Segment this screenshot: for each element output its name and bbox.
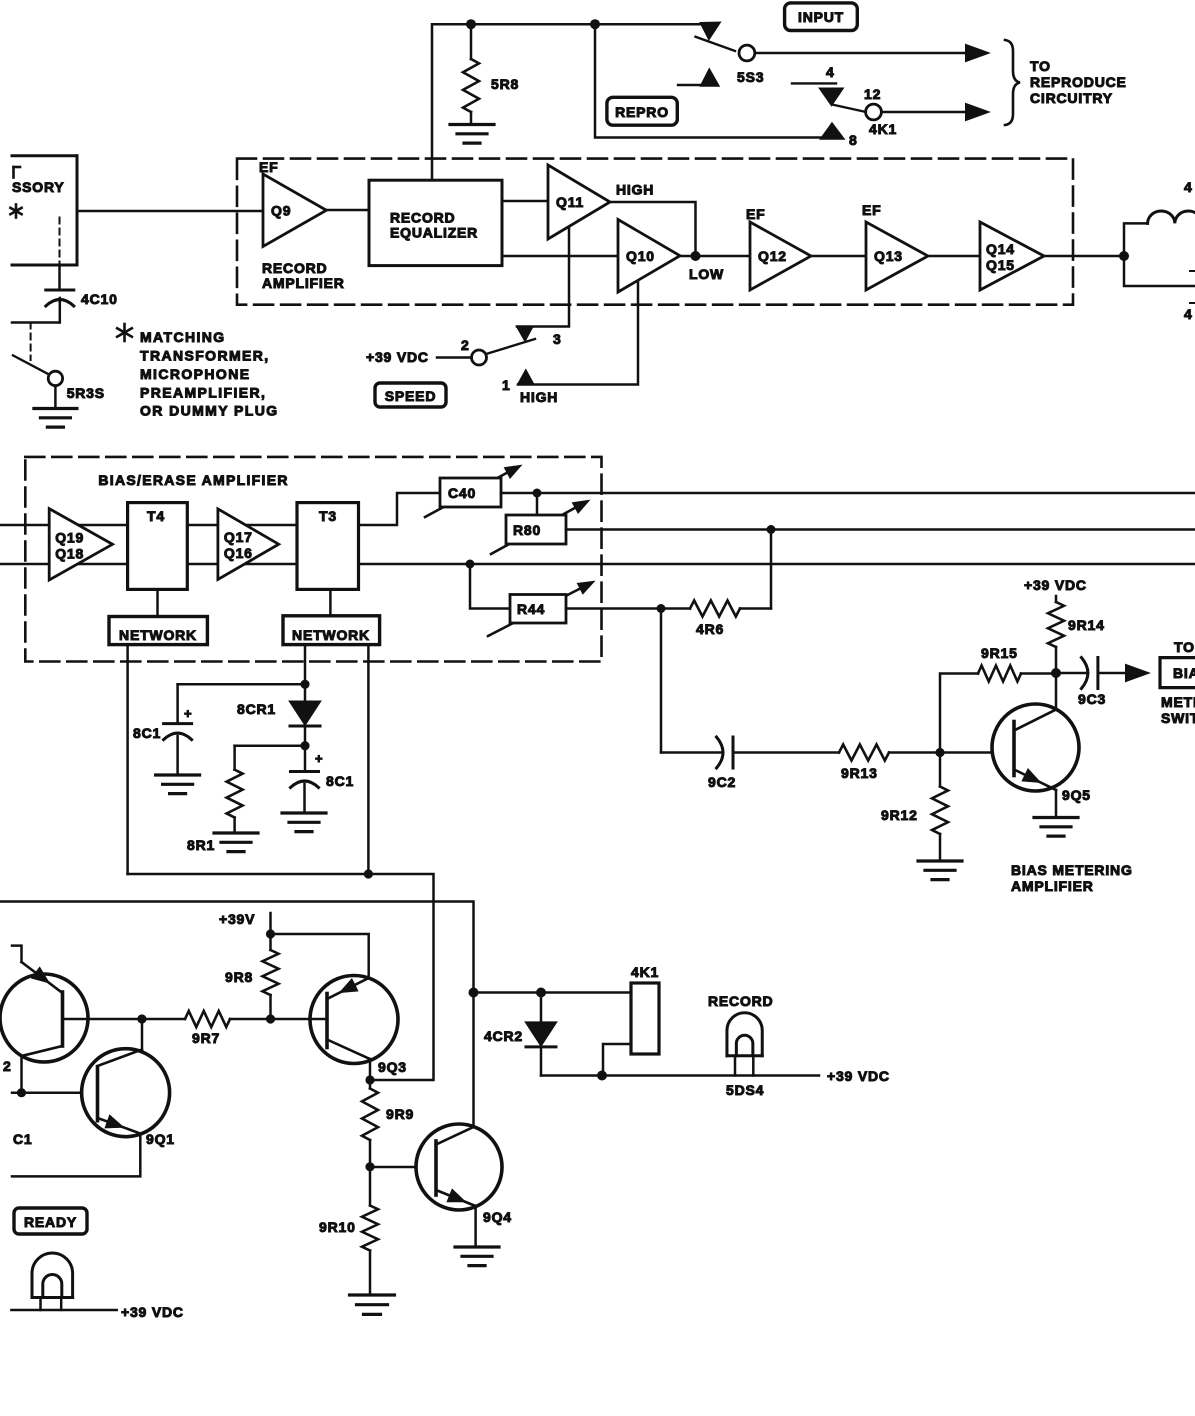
svg-text:4R6: 4R6 [696, 621, 724, 637]
svg-text:METER: METER [1161, 694, 1195, 710]
svg-text:Q19: Q19 [55, 529, 84, 545]
svg-text:BIAS/ERASE AMPLIFIER: BIAS/ERASE AMPLIFIER [98, 472, 288, 488]
svg-text:12: 12 [864, 86, 881, 102]
svg-text:Q9: Q9 [271, 202, 291, 218]
svg-text:3: 3 [553, 331, 562, 347]
svg-text:9Q4: 9Q4 [483, 1209, 512, 1225]
svg-text:Q17: Q17 [224, 529, 253, 545]
svg-text:4CR2: 4CR2 [484, 1028, 523, 1044]
svg-text:EF: EF [746, 206, 766, 222]
svg-text:9C2: 9C2 [708, 774, 736, 790]
svg-text:5R8: 5R8 [491, 76, 519, 92]
svg-text:C1: C1 [13, 1131, 33, 1147]
svg-text:SSORY: SSORY [12, 179, 65, 195]
svg-text:4C10: 4C10 [81, 291, 118, 307]
svg-text:Q10: Q10 [626, 248, 655, 264]
svg-text:9Q5: 9Q5 [1062, 787, 1091, 803]
svg-text:9R15: 9R15 [981, 645, 1018, 661]
svg-text:Q16: Q16 [224, 545, 253, 561]
svg-text:EQUALIZER: EQUALIZER [390, 225, 478, 241]
svg-text:T3: T3 [319, 508, 337, 524]
svg-text:R44: R44 [517, 601, 545, 617]
svg-text:Q15: Q15 [986, 257, 1015, 273]
svg-text:EF: EF [862, 202, 882, 218]
svg-text:4: 4 [1184, 306, 1193, 322]
svg-text:LOW: LOW [689, 266, 724, 282]
svg-text:MATCHING: MATCHING [140, 329, 226, 345]
svg-text:2: 2 [461, 337, 470, 353]
svg-text:HIGH: HIGH [520, 389, 558, 405]
svg-text:4K1: 4K1 [631, 964, 659, 980]
svg-text:INPUT: INPUT [798, 9, 844, 25]
svg-text:8: 8 [849, 132, 858, 148]
svg-text:4K1: 4K1 [869, 121, 897, 137]
svg-text:5R3S: 5R3S [67, 385, 105, 401]
svg-text:5S3: 5S3 [737, 69, 764, 85]
svg-text:BIAS: BIAS [1173, 665, 1195, 681]
svg-text:9R14: 9R14 [1068, 617, 1105, 633]
svg-text:TRANSFORMER,: TRANSFORMER, [140, 348, 270, 364]
svg-text:R80: R80 [513, 522, 541, 538]
svg-text:READY: READY [24, 1214, 77, 1230]
svg-text:9Q3: 9Q3 [378, 1059, 407, 1075]
svg-text:9R12: 9R12 [881, 807, 918, 823]
svg-text:+39 VDC: +39 VDC [1024, 577, 1087, 593]
svg-text:+39 VDC: +39 VDC [366, 349, 429, 365]
svg-text:C40: C40 [448, 485, 476, 501]
svg-text:+39V: +39V [219, 911, 255, 927]
svg-text:T4: T4 [147, 508, 165, 524]
svg-text:OR DUMMY PLUG: OR DUMMY PLUG [140, 403, 279, 419]
svg-text:Q13: Q13 [874, 248, 903, 264]
svg-text:9R8: 9R8 [225, 969, 253, 985]
svg-text:CIRCUITRY: CIRCUITRY [1030, 90, 1113, 106]
svg-text:Q12: Q12 [758, 248, 787, 264]
svg-text:2: 2 [3, 1058, 12, 1074]
svg-text:4: 4 [826, 64, 835, 80]
svg-text:9R13: 9R13 [841, 765, 878, 781]
svg-text:TO: TO [1174, 639, 1195, 655]
svg-text:HIGH: HIGH [616, 182, 654, 198]
svg-text:9R10: 9R10 [319, 1219, 356, 1235]
svg-text:8R1: 8R1 [187, 837, 215, 853]
svg-text:Q11: Q11 [556, 194, 584, 210]
svg-text:+39 VDC: +39 VDC [827, 1068, 890, 1084]
svg-text:4: 4 [1184, 179, 1193, 195]
svg-text:9Q1: 9Q1 [146, 1131, 175, 1147]
svg-text:BIAS METERING: BIAS METERING [1011, 862, 1133, 878]
svg-text:9R7: 9R7 [192, 1030, 220, 1046]
svg-text:REPRODUCE: REPRODUCE [1030, 74, 1127, 90]
svg-text:AMPLIFIER: AMPLIFIER [1011, 878, 1094, 894]
svg-text:SPEED: SPEED [385, 388, 436, 404]
svg-text:PREAMPLIFIER,: PREAMPLIFIER, [140, 385, 266, 401]
svg-text:AMPLIFIER: AMPLIFIER [262, 275, 345, 291]
svg-text:9R9: 9R9 [386, 1106, 414, 1122]
svg-text:+39 VDC: +39 VDC [121, 1304, 184, 1320]
svg-text:SWITCH: SWITCH [1161, 710, 1195, 726]
svg-text:5DS4: 5DS4 [726, 1082, 764, 1098]
svg-text:RECORD: RECORD [262, 260, 327, 276]
svg-text:Q14: Q14 [986, 241, 1015, 257]
svg-text:RECORD: RECORD [390, 210, 455, 226]
svg-text:NETWORK: NETWORK [292, 627, 370, 643]
svg-text:9C3: 9C3 [1078, 691, 1106, 707]
svg-text:RECORD: RECORD [708, 993, 773, 1009]
svg-text:MICROPHONE: MICROPHONE [140, 366, 250, 382]
svg-text:8C1: 8C1 [326, 773, 354, 789]
svg-text:+: + [184, 706, 192, 721]
svg-text:REPRO: REPRO [615, 104, 669, 120]
svg-text:+: + [315, 751, 323, 766]
svg-text:8CR1: 8CR1 [237, 701, 276, 717]
svg-text:Q18: Q18 [55, 545, 84, 561]
svg-text:8C1: 8C1 [133, 725, 161, 741]
svg-text:NETWORK: NETWORK [119, 627, 197, 643]
svg-text:TO: TO [1030, 58, 1051, 74]
svg-text:1: 1 [502, 377, 511, 393]
